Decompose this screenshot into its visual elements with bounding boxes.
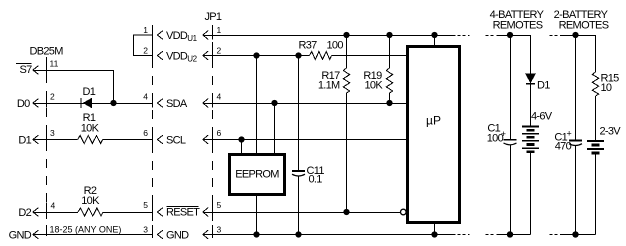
junction VDDU1/R17 [343, 32, 349, 38]
wire 4batt GND rail [497, 234, 531, 236]
svg-text:U1: U1 [187, 34, 197, 43]
svg-text:10: 10 [601, 82, 612, 94]
svg-text:3: 3 [50, 128, 55, 138]
svg-text:2-3V: 2-3V [600, 126, 622, 138]
svg-text:470: 470 [555, 141, 572, 153]
wire uP GND stub [434, 223, 436, 235]
svg-text:4: 4 [143, 92, 148, 102]
wire D2 right [103, 212, 153, 214]
wire 2batt C1 bottom [575, 146, 577, 235]
diode D1 cathode bar [80, 98, 82, 108]
pin tick 11 [47, 59, 59, 75]
svg-text:4: 4 [51, 201, 56, 211]
connector DB25M dashed body [46, 57, 48, 240]
capacitor C1 100 [504, 140, 517, 145]
capacitor C11 [292, 171, 305, 176]
pin 1 JP1 [213, 25, 222, 40]
wire R17 top [346, 35, 348, 68]
wire SDA rail [203, 103, 407, 105]
resistor R2 [78, 208, 103, 216]
svg-text:D1: D1 [18, 134, 31, 146]
wire C11 top [298, 56, 300, 172]
junction R19/SDA [386, 100, 392, 106]
label 4-BATTERY REMOTES [490, 9, 545, 32]
pin 5 cable-side [143, 200, 152, 217]
net GND arrow JP1 [203, 230, 208, 239]
junction VDD2/C11 [295, 52, 301, 58]
wire D0 [33, 103, 153, 105]
svg-text:SCL: SCL [166, 135, 186, 147]
svg-text:4: 4 [217, 92, 222, 102]
wire S7 to D0 vertical [113, 70, 115, 103]
label D1 [83, 86, 96, 98]
svg-text:+: + [567, 129, 572, 139]
svg-text:D0: D0 [17, 98, 30, 110]
svg-text:D1: D1 [537, 80, 550, 92]
wire GND left [33, 234, 153, 236]
junction EEPROM/GND [253, 231, 259, 237]
ic uP box [408, 47, 460, 223]
svg-text:S7: S7 [19, 64, 32, 76]
svg-text:10K: 10K [81, 123, 100, 135]
label 2-BATTERY REMOTES [554, 9, 609, 32]
pin RESET bubble [401, 209, 407, 215]
battery 2-3V [587, 141, 604, 153]
ic EEPROM box [230, 154, 285, 194]
pin 1 cable-side [143, 25, 148, 35]
label R19 [363, 70, 383, 92]
label JP1 [205, 11, 222, 23]
pin 2 JP1 [213, 46, 222, 61]
svg-text:R37: R37 [299, 40, 318, 52]
wire GND rail break 3 [550, 234, 560, 236]
svg-text:11: 11 [50, 59, 59, 69]
wire 2batt R15 to battery [595, 96, 597, 141]
label R1 [81, 112, 100, 135]
wire VDDU2 rail left [203, 55, 310, 57]
wire RESET rail [203, 212, 401, 214]
junction 4batt GND [507, 231, 513, 237]
net GND label mid [158, 230, 190, 242]
wire R19 top [389, 35, 391, 68]
svg-text:2: 2 [143, 46, 148, 56]
net SDA label [158, 98, 188, 110]
pin 2 cable-side [143, 46, 148, 56]
svg-text:EEPROM: EEPROM [235, 169, 279, 181]
wire 2batt GND rail [560, 234, 596, 236]
junction 2batt GND [572, 231, 578, 237]
svg-text:3: 3 [217, 225, 222, 235]
svg-text:6: 6 [217, 128, 222, 138]
wire VDD rail break 2 [486, 35, 496, 37]
svg-text:µP: µP [426, 114, 441, 128]
wire D1 right [103, 139, 153, 141]
wire SCL rail [203, 139, 407, 141]
net VDDU1 arrow JP1 [203, 31, 208, 40]
junction C11/GND [295, 231, 301, 237]
label DB25M [30, 46, 64, 58]
node D1 label [18, 134, 31, 146]
junction VDDU1/uP [431, 32, 437, 38]
svg-text:6: 6 [143, 128, 148, 138]
svg-text:5: 5 [143, 200, 148, 210]
wire EEPROM SCL stub [241, 140, 243, 154]
wire VDD rail break 3 [550, 35, 560, 37]
svg-text:1: 1 [143, 25, 148, 35]
svg-text:REMOTES: REMOTES [559, 20, 609, 32]
net SCL label [158, 135, 186, 147]
node S7 arrow [33, 66, 38, 75]
svg-text:2: 2 [50, 92, 55, 102]
wire 4batt battery bottom [530, 152, 532, 235]
wire 4batt C1 bottom [510, 145, 512, 234]
wire S7 [33, 70, 114, 72]
svg-text:SDA: SDA [166, 98, 188, 110]
junction VDDU1/R19 [386, 32, 392, 38]
label uP [426, 114, 441, 128]
pin tick 2 [47, 92, 56, 108]
label 2-3V [600, 126, 622, 138]
net SDA arrow JP1 [203, 99, 208, 108]
label C11 [307, 165, 325, 186]
resistor R19 [386, 68, 392, 93]
wire 4batt diode branch top [530, 35, 532, 74]
resistor R37 [310, 52, 332, 60]
resistor R17 [343, 68, 349, 93]
wire D2 left [33, 212, 78, 214]
label EEPROM [235, 169, 279, 181]
wire R17 bottom [346, 93, 348, 212]
wire EEPROM SDA stub [274, 103, 276, 154]
svg-text:1.1M: 1.1M [318, 80, 340, 92]
junction SCL/EEPROM [238, 136, 244, 142]
wire D1 left [33, 139, 78, 141]
wire EEPROM GND stub [256, 195, 258, 235]
resistor R15 [592, 72, 598, 96]
svg-text:10K: 10K [365, 80, 384, 92]
svg-text:4-6V: 4-6V [531, 111, 553, 123]
svg-text:RESET: RESET [166, 207, 200, 219]
net SCL arrow JP1 [203, 135, 208, 144]
svg-text:REMOTES: REMOTES [493, 20, 543, 32]
wire 2batt C1 top [575, 35, 577, 141]
wire 2batt VDD rail [560, 35, 596, 37]
svg-text:2: 2 [217, 46, 222, 56]
node D2 arrow [33, 208, 38, 217]
pin 3 cable-side [143, 225, 152, 235]
wire uP VDD stub [434, 35, 436, 46]
svg-text:DB25M: DB25M [30, 46, 64, 58]
junction uP/GND [431, 231, 437, 237]
battery 4-6V [522, 127, 539, 152]
pin 4 JP1 [213, 92, 222, 108]
svg-text:D2: D2 [18, 207, 31, 219]
wire EEPROM VDD stub [256, 56, 258, 154]
pin 3 JP1 [213, 225, 222, 235]
net RESET label [158, 206, 201, 218]
svg-text:0.1: 0.1 [309, 174, 323, 186]
pin tick 18-25 [47, 225, 122, 235]
junction VDD2/EEPROM [253, 52, 259, 58]
wire GND rail break 2 [486, 234, 496, 236]
svg-text:10K: 10K [81, 195, 100, 207]
svg-text:5: 5 [217, 200, 222, 210]
wire GND rail break 1 [458, 234, 470, 236]
svg-text:D1: D1 [83, 86, 96, 98]
node GND label left [9, 229, 32, 241]
svg-text:3: 3 [143, 225, 148, 235]
pin 6 cable-side [143, 128, 152, 144]
diode D1 body [84, 98, 92, 107]
label C1 470 [554, 129, 571, 153]
svg-text:VDD: VDD [166, 51, 188, 63]
wire 4batt C1 top [510, 35, 512, 140]
junction 2batt VDD/C1 [572, 32, 578, 38]
svg-text:JP1: JP1 [205, 11, 222, 23]
label R37 [299, 40, 344, 52]
node D0 arrow [33, 99, 38, 108]
svg-text:1: 1 [217, 25, 222, 35]
resistor R1 [78, 136, 103, 144]
label C1 100 [487, 123, 506, 145]
wire VDDU1 rail [203, 35, 456, 37]
wire C11 bottom [298, 177, 300, 235]
svg-text:GND: GND [9, 229, 32, 241]
pin tick 4 [47, 201, 56, 217]
wire 2batt battery bottom [595, 153, 597, 235]
junction 4batt VDD/C1 [507, 32, 513, 38]
svg-text:VDD: VDD [166, 30, 188, 42]
svg-text:100: 100 [327, 40, 344, 52]
node GND arrow left [33, 230, 38, 239]
net RESET arrow JP1 [203, 208, 208, 217]
wire VDD rail break 1 [458, 35, 470, 37]
wire R19 bottom [389, 93, 391, 103]
pin 5 JP1 [213, 200, 222, 217]
pin tick 3 [47, 128, 56, 144]
pin 4 cable-side [143, 92, 152, 108]
jumper box pins 1-2 [134, 33, 153, 60]
capacitor C1 470 [569, 141, 582, 146]
svg-text:18-25 (ANY ONE): 18-25 (ANY ONE) [50, 225, 122, 235]
svg-text:GND: GND [166, 230, 189, 242]
wire GND rail [203, 234, 456, 236]
pin 6 JP1 [213, 128, 222, 144]
label D1 remote [537, 80, 550, 92]
net VDDU1 label [158, 30, 198, 43]
svg-text:100: 100 [487, 133, 504, 145]
diode D1 remote [526, 74, 535, 84]
node D0 label [17, 98, 30, 110]
connector cable-side dashed body [152, 25, 154, 239]
connector JP1 dashed body [212, 25, 214, 239]
node D2 label [18, 207, 31, 219]
junction 2batt C1/GND [572, 231, 578, 237]
label R17 [318, 70, 340, 92]
junction R17/RESET [343, 209, 349, 215]
wire 4batt diode to battery [530, 84, 532, 127]
label 4-6V [531, 111, 553, 123]
svg-text:U2: U2 [187, 55, 197, 64]
label R2 [81, 185, 100, 207]
net VDDU2 arrow JP1 [203, 51, 208, 60]
wire 4batt VDD rail [497, 35, 531, 37]
net VDDU2 label [158, 51, 198, 64]
junction S7/D0 [110, 100, 116, 106]
node S7 label [16, 64, 32, 77]
label R15 [601, 73, 620, 95]
wire VDDU2 rail right [332, 55, 407, 57]
node D1 arrow [33, 135, 38, 144]
junction 4batt C1/GND [507, 231, 513, 237]
junction SDA/EEPROM [271, 100, 277, 106]
wire 2batt R15 branch top [595, 35, 597, 72]
